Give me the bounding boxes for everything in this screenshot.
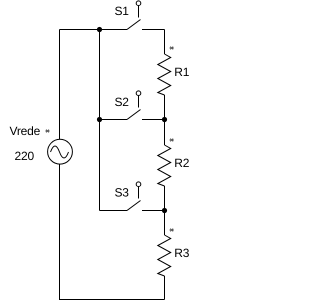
svg-text:R3: R3 (174, 246, 189, 260)
svg-text:R1: R1 (174, 65, 189, 79)
svg-text:S1: S1 (115, 4, 130, 18)
svg-text:S2: S2 (115, 95, 130, 109)
svg-text:Vrede: Vrede (10, 124, 41, 138)
svg-text:S3: S3 (115, 186, 130, 200)
svg-text:220: 220 (15, 149, 35, 163)
svg-text:R2: R2 (174, 156, 189, 170)
